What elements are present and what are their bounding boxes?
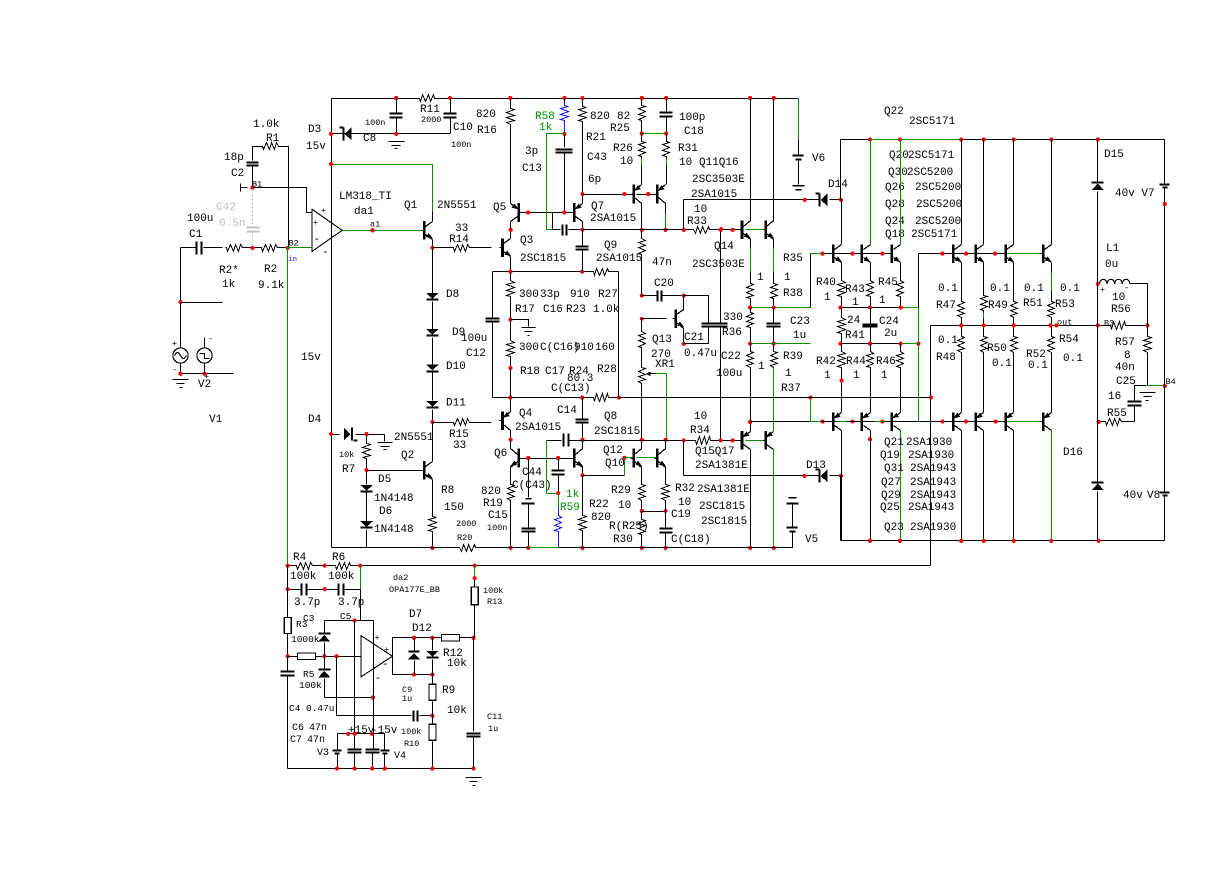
svg-text:R53: R53 — [1055, 299, 1075, 311]
wire pnp7 collector — [1051, 431, 1053, 541]
label R21 value 820 — [590, 111, 610, 123]
resistor R41 — [838, 308, 846, 344]
label C24 — [879, 316, 899, 328]
box right edge — [618, 272, 620, 398]
wire out feedback column — [930, 326, 932, 566]
node srail 5 — [430, 767, 434, 771]
svg-text:2000: 2000 — [421, 115, 441, 125]
resistor R20 on bus — [459, 545, 477, 552]
svg-text:C44: C44 — [522, 467, 542, 479]
svg-text:100k: 100k — [328, 571, 355, 583]
label Q7 type — [590, 213, 636, 225]
resistor R54 — [1048, 335, 1055, 354]
capacitor C43 series — [563, 225, 567, 236]
wire npn2 emitter — [870, 263, 872, 280]
transistor Q6 — [510, 449, 522, 468]
svg-text:C22: C22 — [721, 351, 741, 363]
node C13 bottom — [562, 210, 566, 214]
wire Q15 collector down — [750, 450, 752, 548]
label R48 — [936, 352, 956, 364]
label Q13 — [652, 334, 672, 346]
wire R7 lead — [366, 435, 368, 442]
svg-text:R6: R6 — [332, 552, 345, 564]
wire base line Q11Q16 — [583, 194, 657, 196]
svg-text:2SA1943: 2SA1943 — [910, 477, 956, 489]
wire D13 riser — [683, 441, 685, 476]
svg-text:100k: 100k — [483, 586, 503, 596]
node R22 bus — [580, 546, 584, 550]
transistor output pnp2 — [859, 412, 871, 431]
wire pnp4 emitter — [961, 354, 963, 413]
svg-text:10k: 10k — [447, 658, 467, 670]
wire R43 bottom — [870, 299, 872, 308]
transistor output npn6 — [1003, 244, 1015, 263]
label V4 — [394, 751, 406, 762]
label R22 — [589, 499, 609, 511]
wire source V1 vertical — [180, 248, 182, 303]
wire Q2 base — [367, 470, 422, 472]
node R55 left — [1097, 420, 1101, 424]
wire Q16 collector — [665, 203, 667, 230]
svg-text:C1: C1 — [189, 229, 203, 241]
svg-text:out: out — [1057, 318, 1072, 328]
svg-text:Q18: Q18 — [885, 229, 905, 241]
label R1 value 1.0k — [253, 119, 280, 131]
resistor R2 — [261, 245, 279, 252]
transistor output npn7 — [1040, 244, 1052, 263]
transistor Q2 2N5551 — [422, 461, 433, 480]
label R37 — [781, 383, 801, 395]
svg-text:1: 1 — [784, 272, 791, 284]
label Q4 — [519, 408, 533, 420]
box left edge with C12 — [486, 272, 500, 398]
svg-text:0.1: 0.1 — [1028, 360, 1048, 372]
svg-text:2SA1930: 2SA1930 — [908, 450, 954, 462]
svg-text:R17: R17 — [515, 304, 535, 316]
node R58 bottom — [562, 132, 566, 136]
capacitor C14 column — [576, 398, 589, 440]
node rail C8 — [394, 96, 398, 100]
svg-text:LM318_TI: LM318_TI — [339, 191, 392, 203]
wire R52 top — [1013, 326, 1015, 335]
resistor R52 — [1011, 335, 1018, 354]
node brail 7 — [1097, 539, 1101, 543]
diode D3 — [340, 127, 352, 140]
svg-text:C12: C12 — [466, 348, 486, 360]
label R57 — [1115, 337, 1135, 349]
svg-text:D10: D10 — [446, 361, 466, 373]
label D3 — [308, 124, 321, 136]
wire V1 to ground line — [180, 364, 182, 374]
op-amp da2 — [361, 633, 392, 685]
svg-text:a1: a1 — [370, 220, 380, 230]
svg-text:2SC5200: 2SC5200 — [915, 182, 961, 194]
node R30 bus — [640, 546, 644, 550]
svg-text:910: 910 — [574, 342, 594, 354]
svg-text:R27: R27 — [598, 289, 618, 301]
svg-text:+: + — [1100, 285, 1105, 295]
svg-text:R40: R40 — [816, 277, 836, 289]
label C1 — [189, 229, 203, 241]
svg-text:D4: D4 — [308, 414, 322, 426]
node a1 — [370, 228, 374, 232]
label Q22 — [884, 106, 904, 118]
node C8-D3 — [394, 132, 398, 136]
diode D10 — [426, 365, 439, 372]
wire npn base bus left — [811, 253, 891, 255]
svg-text:R50: R50 — [987, 343, 1007, 355]
wire Q14b emitter — [773, 239, 775, 282]
wire C22 top lead — [720, 230, 722, 324]
svg-text:D16: D16 — [1063, 447, 1083, 459]
wire Q12-Q10 base link — [637, 457, 657, 459]
node box top Q3 — [508, 270, 512, 274]
svg-text:R47: R47 — [936, 300, 956, 312]
svg-text:C25: C25 — [1116, 376, 1136, 388]
wire out line — [931, 325, 1148, 327]
wire Q14a emitter — [750, 239, 752, 282]
wire C3C5 line — [288, 589, 361, 591]
label V6 — [812, 153, 825, 165]
node R35 j — [748, 306, 752, 310]
label D5 — [378, 474, 391, 486]
node brail 2 — [898, 539, 902, 543]
resistor R9 box — [429, 684, 436, 700]
svg-text:3.7p: 3.7p — [338, 597, 364, 609]
svg-text:R37: R37 — [781, 383, 801, 395]
node Q15 coll bus — [748, 546, 752, 550]
node servo left — [286, 564, 290, 568]
diode D6 — [360, 521, 373, 527]
wire rail2 — [841, 139, 1163, 141]
resistor R5 box — [298, 653, 316, 660]
svg-text:Q15Q17: Q15Q17 — [695, 446, 735, 458]
capacitor bypass2 — [366, 750, 380, 769]
svg-text:1000k: 1000k — [291, 634, 320, 645]
label R26 — [613, 143, 633, 155]
wire pnp6 collector — [1013, 431, 1015, 541]
wire R48 top — [961, 326, 963, 335]
svg-text:Q9: Q9 — [604, 240, 617, 252]
svg-text:2SA1015: 2SA1015 — [590, 213, 636, 225]
label R20 — [457, 533, 472, 543]
node R32 j — [664, 509, 668, 513]
label R20 value 2000 — [456, 519, 476, 529]
capacitor C4 — [281, 672, 295, 676]
label C23 value 1u — [793, 330, 806, 342]
node C15 bus — [526, 546, 530, 550]
node out D15col — [1096, 323, 1100, 327]
svg-text:0.1: 0.1 — [1024, 283, 1044, 295]
label L1 — [1106, 243, 1120, 255]
node bus230 Q14 pin — [731, 228, 735, 232]
svg-text:Q6: Q6 — [494, 448, 507, 460]
label R3 — [296, 619, 308, 630]
wire npn emitter junction — [841, 307, 919, 309]
transistor Q8 mid — [572, 449, 583, 468]
node out c4 — [1048, 323, 1052, 327]
label 910 R24 — [574, 342, 594, 354]
svg-text:2SA1930: 2SA1930 — [910, 522, 956, 534]
label R45 — [878, 277, 898, 289]
capacitor C25 — [1128, 402, 1142, 406]
wire R32 bottom — [665, 502, 667, 512]
label C2 — [231, 168, 244, 180]
node D14 pin — [803, 198, 807, 202]
label D13 — [806, 460, 826, 472]
wire bus440 left — [547, 440, 562, 442]
svg-text:2SA1381E: 2SA1381E — [697, 484, 750, 496]
svg-text:1.0k: 1.0k — [253, 119, 280, 131]
svg-text:R33: R33 — [687, 216, 707, 228]
svg-text:Q13: Q13 — [652, 334, 672, 346]
svg-text:15v: 15v — [306, 141, 326, 153]
potentiometer XR1 — [639, 349, 646, 440]
node pnp b3 — [880, 420, 884, 424]
wire R29-R32 link — [642, 511, 666, 513]
resistor R53 — [1048, 301, 1055, 319]
label R40 — [816, 277, 836, 289]
svg-text:D5: D5 — [378, 474, 391, 486]
diode D8 — [426, 293, 439, 300]
label Q7 — [591, 201, 604, 213]
resistor R10 box — [429, 716, 436, 741]
svg-text:R23: R23 — [566, 304, 586, 316]
svg-text:100n: 100n — [487, 523, 507, 533]
wire R7-D5 node — [366, 461, 368, 471]
label C(C43) — [512, 480, 552, 492]
node R38 j — [772, 306, 776, 310]
resistor R2* — [226, 245, 244, 252]
label C9 value 1u — [402, 694, 412, 704]
label R11 — [420, 104, 440, 116]
svg-text:47n: 47n — [307, 735, 325, 746]
label R55 — [1107, 408, 1127, 420]
svg-text:0.1: 0.1 — [990, 283, 1010, 295]
wire servo left column upper — [287, 566, 289, 618]
svg-text:D15: D15 — [1104, 149, 1124, 161]
capacitor C18 column — [660, 99, 673, 134]
transistor Q16 — [655, 185, 666, 204]
svg-text:Q30: Q30 — [888, 167, 908, 179]
svg-text:18p: 18p — [224, 152, 244, 164]
node srail 1 — [335, 767, 339, 771]
node npn b6 — [993, 252, 997, 256]
node R7 bottom — [365, 468, 369, 472]
label Q3 type — [520, 253, 566, 265]
svg-text:Q4: Q4 — [519, 408, 533, 420]
wire clamp bottom line — [325, 697, 374, 699]
label R4 — [293, 552, 307, 564]
wire C43 tap — [553, 213, 561, 230]
label R2* — [219, 265, 239, 277]
wire D7 column — [414, 638, 416, 675]
wire Q4 collector — [510, 430, 512, 440]
node R59 top — [556, 491, 560, 495]
svg-text:0.1: 0.1 — [938, 335, 958, 347]
svg-text:6p: 6p — [588, 174, 601, 186]
node R40 j — [838, 306, 842, 310]
wire pnp2 collector — [870, 431, 872, 541]
wire D6 to bus — [366, 530, 368, 548]
svg-text:C10: C10 — [453, 122, 473, 134]
wire Q13 emitter — [683, 328, 685, 344]
svg-text:9.1k: 9.1k — [258, 280, 285, 292]
node box top C16 — [580, 270, 584, 274]
node srail 3 — [370, 767, 374, 771]
wire D14 riser — [683, 200, 685, 230]
label C11 value 1u — [488, 724, 498, 734]
wire rail2 left drop — [840, 140, 842, 200]
node servo input left — [286, 654, 290, 658]
svg-text:V5: V5 — [805, 534, 818, 546]
wire npn6 collector — [1013, 140, 1015, 245]
wire input coupling line — [181, 247, 223, 249]
svg-text:R45: R45 — [878, 277, 898, 289]
label C9 — [402, 685, 412, 695]
resistor R49 — [981, 294, 988, 313]
label Q21 2SA1930 — [884, 437, 952, 449]
svg-text:V2: V2 — [198, 379, 211, 391]
wire R29 bottom — [641, 502, 643, 512]
box top edge — [493, 271, 619, 273]
label Q23 2SA1930 — [884, 522, 956, 534]
label Q5 — [493, 202, 506, 214]
label Q9 — [604, 240, 617, 252]
svg-text:D8: D8 — [446, 289, 459, 301]
wire C11 to rail — [473, 737, 475, 769]
label R19 value 820 — [481, 486, 501, 498]
wire Q12 base green — [625, 457, 633, 459]
svg-text:Q23: Q23 — [884, 522, 904, 534]
label Q8 type — [594, 426, 640, 438]
label R12 value 10k — [447, 658, 467, 670]
svg-text:100p: 100p — [679, 112, 705, 124]
node pnp b6 — [994, 420, 998, 424]
label Q2 type 2N5551 — [394, 432, 434, 444]
node rail C18 — [664, 96, 668, 100]
label da2 type OPA177E_BB — [389, 585, 440, 595]
transistor Q1 2N5551 — [422, 221, 433, 240]
node pnp b1 — [821, 420, 825, 424]
label value 1 R44 — [853, 370, 860, 382]
resistor R4 — [296, 563, 314, 570]
svg-text:R31: R31 — [678, 143, 698, 155]
svg-text:Q5: Q5 — [493, 202, 506, 214]
transistor Q5 — [511, 203, 523, 222]
svg-text:R13: R13 — [487, 597, 502, 607]
node srail 4 — [383, 767, 387, 771]
node D4 left — [329, 432, 333, 436]
ground stub in box — [511, 320, 536, 336]
label R33 value 10 — [694, 204, 707, 216]
label D6 — [379, 506, 392, 518]
resistor R11 — [418, 95, 437, 102]
wire R25 column — [639, 99, 646, 134]
svg-text:C17: C17 — [545, 366, 565, 378]
diode D14 — [816, 193, 828, 206]
node R43 j — [868, 306, 872, 310]
label C13 value 3p — [525, 146, 538, 158]
resistor R56 — [1109, 322, 1128, 330]
node brail 3 — [959, 539, 963, 543]
label R58 — [535, 111, 555, 123]
node R13 top — [473, 576, 477, 580]
node srail 6 — [471, 767, 475, 771]
node Q11 coll bus — [640, 228, 644, 232]
svg-text:C(C18): C(C18) — [671, 534, 711, 546]
label D9 — [452, 327, 465, 339]
label value 330 — [723, 312, 743, 324]
label R32 — [675, 483, 695, 495]
box bottom edge — [493, 397, 619, 399]
wire R18 to bottom edge — [510, 369, 512, 398]
wire R3 to input line — [287, 634, 289, 657]
label Q22 type — [909, 116, 956, 128]
label Q20 2SC5171 — [889, 150, 955, 162]
label C21 box — [684, 332, 704, 344]
resistor R42 — [838, 344, 846, 413]
label R16 — [477, 125, 497, 137]
wire R47 bottom — [961, 319, 963, 326]
label out — [1057, 318, 1072, 328]
svg-text:100k: 100k — [299, 680, 322, 691]
svg-text:Q10: Q10 — [605, 458, 625, 470]
transistor output npn3 — [889, 244, 901, 263]
battery V4 — [373, 734, 390, 769]
label type 2SC1815 b1 — [699, 501, 745, 513]
svg-text:R36: R36 — [722, 327, 742, 339]
svg-text:C2: C2 — [231, 168, 244, 180]
svg-text:R3: R3 — [296, 619, 308, 630]
label C10 100n — [451, 140, 471, 150]
svg-text:R54: R54 — [1059, 334, 1079, 346]
node R42 mid — [840, 378, 844, 382]
svg-text:10: 10 — [1112, 292, 1125, 304]
label type 2SA1015 — [691, 189, 737, 201]
node C18 bottom — [664, 131, 668, 135]
transistor output npn1 — [831, 244, 843, 263]
wire clamp top line — [325, 620, 374, 622]
svg-text:C19: C19 — [671, 509, 691, 521]
svg-text:820: 820 — [476, 109, 496, 121]
svg-text:R26: R26 — [613, 143, 633, 155]
wire D15 column — [1097, 140, 1099, 541]
wire pnp4 collector — [961, 431, 963, 541]
svg-text:2SA1943: 2SA1943 — [910, 490, 956, 502]
wire clamp left column — [324, 621, 326, 698]
diode D4 — [344, 428, 358, 441]
wire B2 to opamp inverting input — [288, 247, 312, 249]
svg-text:15v: 15v — [301, 352, 321, 364]
wire Q14 base link — [746, 229, 764, 231]
resistor R57 — [1144, 335, 1152, 354]
svg-text:10: 10 — [620, 156, 633, 168]
wire R21 column — [579, 99, 587, 195]
label C21 value — [684, 348, 717, 360]
label Q12 — [603, 445, 623, 457]
svg-text:1: 1 — [853, 370, 860, 382]
label C12 — [466, 348, 486, 360]
label C8 100n — [365, 118, 385, 128]
node out fb 397 — [929, 395, 933, 399]
svg-text:8: 8 — [1124, 350, 1131, 362]
label C10 — [453, 122, 473, 134]
net flag i — [241, 184, 248, 192]
resistor 270 — [639, 319, 646, 349]
battery V8 — [1160, 493, 1170, 496]
wire driver riser black — [810, 254, 812, 308]
